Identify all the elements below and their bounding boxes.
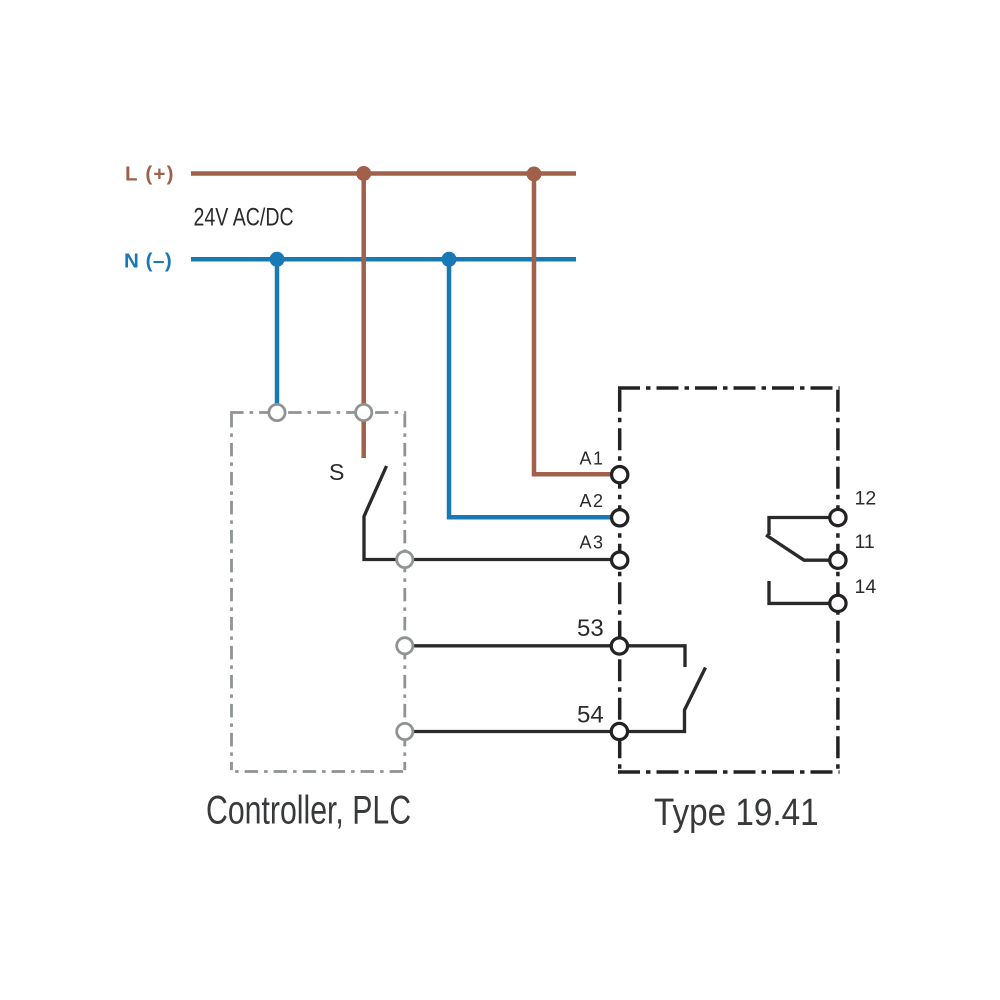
- svg-text:Type 19.41: Type 19.41: [654, 790, 819, 834]
- svg-text:S: S: [329, 459, 344, 485]
- svg-text:53: 53: [577, 615, 604, 642]
- svg-text:A3: A3: [580, 532, 605, 552]
- svg-text:A1: A1: [580, 449, 605, 469]
- svg-text:Controller, PLC: Controller, PLC: [206, 789, 411, 833]
- svg-text:L (+): L (+): [125, 163, 175, 186]
- svg-text:11: 11: [855, 531, 875, 553]
- svg-text:14: 14: [855, 576, 877, 598]
- svg-text:54: 54: [577, 701, 604, 728]
- svg-text:12: 12: [855, 488, 877, 510]
- svg-text:N (–): N (–): [124, 250, 172, 273]
- svg-text:24V AC/DC: 24V AC/DC: [194, 203, 294, 231]
- svg-text:A2: A2: [580, 491, 605, 511]
